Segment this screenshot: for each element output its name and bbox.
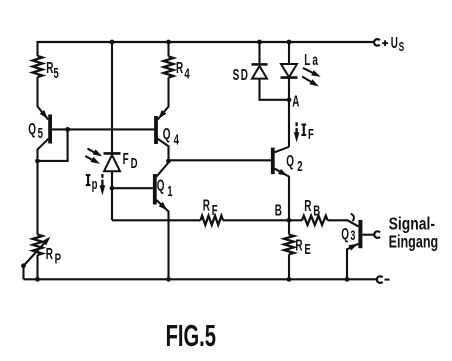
photodiode FD light arrow 1: [88, 149, 98, 154]
svg-text:Eingang: Eingang: [389, 232, 439, 252]
wire RF to node B: [223, 219, 302, 221]
terminal signal input: [374, 231, 380, 238]
transistor Q3 emitter lead: [347, 244, 358, 279]
photodiode FD triangle: [104, 155, 120, 171]
wire SD from top rail: [258, 42, 260, 64]
svg-text:Q: Q: [157, 176, 165, 194]
svg-text:R: R: [304, 197, 312, 215]
wire R4 from top rail: [167, 42, 169, 57]
junction dot Q1 emitter bottom rail: [166, 277, 171, 282]
wire FD column from top rail: [111, 42, 113, 153]
transistor Q4 base bar: [154, 116, 158, 144]
wire bottom rail: [24, 278, 377, 280]
junction dot node A: [287, 97, 292, 102]
svg-text:U: U: [391, 34, 398, 52]
wire Q1 base: [112, 187, 153, 189]
svg-text:F: F: [123, 150, 129, 168]
svg-text:R: R: [203, 196, 211, 214]
svg-text:D: D: [241, 66, 248, 84]
led La triangle: [281, 64, 297, 77]
svg-text:F: F: [212, 202, 218, 219]
junction dot R4 top rail: [166, 40, 171, 45]
junction dot FD top rail: [110, 40, 115, 45]
potentiometer Rp: [33, 235, 43, 256]
led La light arrow 1: [303, 68, 314, 74]
svg-text:R: R: [46, 245, 54, 263]
junction dot RE bottom rail: [287, 277, 292, 282]
svg-text:P: P: [55, 250, 61, 267]
transistor Q1 emitter lead: [156, 200, 168, 279]
transistor Q5 emitter arrow: [40, 110, 48, 119]
transistor Q2 emitter arrow: [278, 169, 288, 176]
transistor Q1 base bar: [153, 174, 157, 205]
transistor Q4 collector lead: [158, 139, 169, 161]
wire node to Q2 base: [169, 159, 272, 161]
svg-text:F: F: [308, 126, 314, 143]
wire Q1 base node to RF: [112, 219, 201, 221]
svg-text:B: B: [313, 202, 320, 219]
transistor Q2 base bar: [271, 148, 275, 175]
transistor Q2 collector lead: [275, 147, 290, 153]
svg-text:1: 1: [167, 183, 172, 200]
junction dot Q3 emitter bottom rail: [345, 277, 350, 282]
wire Q5 base-collector tie loop: [38, 129, 68, 161]
diode SD cathode bar: [252, 63, 268, 66]
junction dot wiper: [21, 263, 26, 268]
wire RE to bottom rail: [288, 254, 290, 279]
junction dot Q5 base: [65, 127, 70, 132]
terminal +Us: [374, 39, 380, 46]
svg-text:L: L: [304, 51, 310, 69]
resistor RB: [302, 216, 328, 225]
wire R5 to Q5 emitter: [38, 77, 49, 119]
svg-text:A: A: [292, 92, 300, 110]
wire FD anode down: [111, 171, 113, 220]
transistor Q3 base lead: [362, 234, 374, 236]
junction dot Q1 base node: [110, 186, 115, 191]
resistor RF: [201, 216, 224, 225]
led La light arrow 2: [302, 77, 312, 83]
svg-text:a: a: [312, 51, 318, 69]
resistor R4: [164, 57, 174, 78]
svg-text:R: R: [176, 59, 184, 77]
led La cathode bar: [281, 76, 298, 79]
svg-text:4: 4: [184, 66, 189, 83]
svg-text:2: 2: [297, 158, 302, 175]
svg-text:5: 5: [38, 125, 43, 142]
transistor Q3 collector arc mark: [351, 214, 354, 222]
svg-text:Q: Q: [341, 225, 349, 243]
junction dot La top rail: [287, 40, 292, 45]
svg-text:R: R: [295, 236, 303, 254]
junction dot Rp bottom rail: [35, 277, 40, 282]
photodiode FD light arrow 2: [85, 156, 95, 161]
svg-text:Q: Q: [286, 152, 294, 170]
wire wiper to bottom rail: [22, 266, 24, 280]
wire left column top: [36, 41, 38, 56]
wire SD anode to node A: [260, 79, 290, 100]
terminal minus: [377, 276, 383, 283]
diode SD triangle: [252, 66, 267, 79]
junction dot mirror output node: [166, 159, 171, 164]
svg-text:D: D: [131, 155, 138, 172]
svg-text:Signal-: Signal-: [389, 214, 436, 234]
resistor RE: [284, 235, 294, 255]
wire top supply rail +Us: [38, 41, 375, 43]
svg-text:4: 4: [174, 131, 179, 148]
photodiode FD cathode bar: [104, 152, 121, 155]
current arrow Ip: [101, 174, 103, 187]
wire RB to Q3 collector: [328, 220, 359, 226]
svg-text:S: S: [399, 40, 405, 54]
resistor R5: [33, 56, 43, 77]
svg-text:5: 5: [53, 65, 58, 82]
svg-text:3: 3: [350, 228, 355, 243]
label minus sign: [385, 279, 390, 281]
svg-text:B: B: [275, 201, 282, 219]
transistor Q5 collector lead: [38, 139, 49, 235]
wire B to RE: [288, 220, 290, 234]
svg-text:Q: Q: [28, 120, 36, 138]
label +Us plus sign: [382, 40, 388, 46]
transistor Q1 emitter arrow: [159, 202, 168, 211]
junction dot node B: [287, 218, 292, 223]
svg-text:E: E: [304, 241, 310, 258]
junction dot SD top rail: [257, 40, 262, 45]
wire La from top rail: [288, 42, 290, 64]
transistor Q2 emitter lead: [275, 169, 290, 221]
transistor Q3 base bar: [358, 220, 362, 248]
transistor Q5 base bar: [48, 115, 52, 144]
wire Q5 base to Q4 base: [52, 128, 154, 130]
svg-text:Q: Q: [163, 125, 171, 143]
svg-text:S: S: [233, 66, 240, 84]
transistor Q4 emitter arrow: [158, 110, 166, 119]
wire La cathode to Q2 collector: [288, 78, 290, 147]
wire Rp bottom: [36, 255, 38, 279]
svg-text:p: p: [92, 176, 98, 193]
transistor Q3 emitter arrow: [348, 244, 358, 251]
transistor Q1 collector lead: [156, 163, 168, 177]
label IF: [301, 125, 306, 135]
potentiometer Rp wiper arrow: [24, 239, 49, 266]
wire R4 to Q4 emitter: [158, 78, 169, 120]
label Ip: [86, 175, 91, 185]
svg-text:FIG.5: FIG.5: [166, 319, 216, 353]
junction dot Q5 collector: [35, 159, 40, 164]
current arrow IF: [295, 122, 297, 133]
